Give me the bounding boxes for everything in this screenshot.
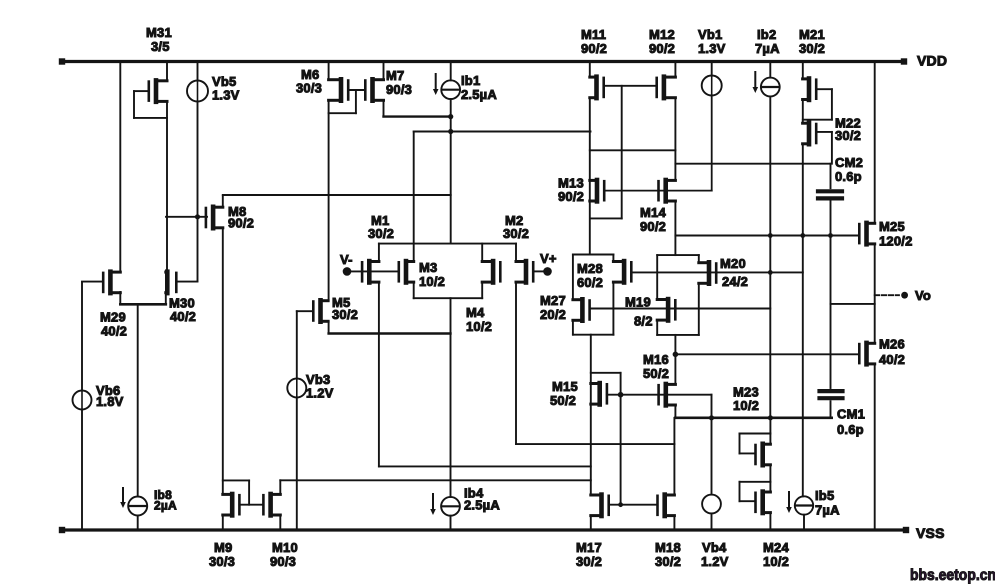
svg-text:0.6p: 0.6p [835, 169, 862, 184]
svg-text:1.2V: 1.2V [306, 386, 334, 401]
svg-text:Ib5: Ib5 [815, 488, 834, 503]
svg-text:M21: M21 [799, 27, 825, 42]
svg-text:M25: M25 [879, 219, 905, 234]
svg-text:1.8V: 1.8V [96, 394, 124, 409]
svg-text:M16: M16 [643, 352, 669, 367]
svg-text:30/2: 30/2 [332, 307, 358, 322]
svg-text:V-: V- [340, 252, 353, 267]
svg-text:20/2: 20/2 [540, 307, 566, 322]
svg-text:1.3V: 1.3V [698, 41, 726, 56]
svg-text:M9: M9 [214, 540, 232, 555]
svg-text:10/2: 10/2 [466, 319, 492, 334]
svg-text:M26: M26 [879, 337, 905, 352]
svg-text:Ib2: Ib2 [757, 27, 776, 42]
svg-text:90/3: 90/3 [270, 554, 296, 569]
svg-text:50/2: 50/2 [643, 366, 669, 381]
svg-text:CM2: CM2 [835, 155, 863, 170]
svg-text:M15: M15 [552, 379, 578, 394]
svg-text:90/3: 90/3 [386, 82, 412, 97]
svg-text:M28: M28 [577, 261, 603, 276]
svg-text:Ib1: Ib1 [461, 73, 480, 88]
svg-text:40/2: 40/2 [879, 352, 905, 367]
svg-text:M18: M18 [655, 540, 681, 555]
svg-text:CM1: CM1 [837, 407, 865, 422]
svg-text:2.5µA: 2.5µA [461, 87, 497, 102]
svg-text:90/2: 90/2 [581, 41, 607, 56]
svg-text:3/5: 3/5 [151, 39, 170, 54]
svg-text:M10: M10 [272, 540, 298, 555]
svg-text:30/2: 30/2 [835, 128, 861, 143]
svg-text:M20: M20 [720, 256, 746, 271]
svg-text:M12: M12 [649, 27, 675, 42]
svg-text:M29: M29 [100, 310, 126, 325]
svg-text:8/2: 8/2 [634, 314, 653, 329]
svg-text:90/2: 90/2 [640, 219, 666, 234]
svg-text:M24: M24 [763, 540, 789, 555]
svg-text:0.6p: 0.6p [837, 422, 864, 437]
svg-text:M17: M17 [576, 540, 602, 555]
svg-text:M19: M19 [625, 295, 651, 310]
svg-text:M7: M7 [386, 68, 404, 83]
svg-text:50/2: 50/2 [550, 393, 576, 408]
svg-text:90/2: 90/2 [649, 41, 675, 56]
svg-text:30/2: 30/2 [503, 226, 529, 241]
svg-text:VSS: VSS [916, 525, 945, 541]
svg-text:2.5µA: 2.5µA [464, 498, 500, 513]
svg-text:7µA: 7µA [815, 503, 840, 518]
svg-text:10/2: 10/2 [763, 554, 789, 569]
svg-text:1.2V: 1.2V [701, 554, 729, 569]
svg-text:M4: M4 [466, 305, 485, 320]
svg-text:M31: M31 [146, 25, 172, 40]
svg-text:40/2: 40/2 [101, 324, 127, 339]
svg-text:30/3: 30/3 [296, 81, 322, 96]
svg-text:M14: M14 [640, 205, 666, 220]
svg-text:Vb1: Vb1 [698, 27, 722, 42]
svg-text:M11: M11 [581, 27, 606, 42]
svg-text:90/2: 90/2 [228, 216, 254, 231]
svg-text:2µA: 2µA [154, 499, 177, 513]
svg-text:bbs.eetop.cn: bbs.eetop.cn [910, 567, 995, 584]
svg-text:V+: V+ [540, 251, 557, 266]
svg-text:M27: M27 [540, 293, 566, 308]
svg-text:30/2: 30/2 [368, 226, 394, 241]
svg-text:Vo: Vo [915, 288, 931, 303]
svg-text:120/2: 120/2 [879, 234, 913, 249]
svg-text:24/2: 24/2 [722, 274, 748, 289]
svg-text:30/2: 30/2 [655, 554, 681, 569]
svg-text:Vb4: Vb4 [702, 540, 727, 555]
svg-text:30/2: 30/2 [799, 41, 825, 56]
svg-text:10/2: 10/2 [733, 398, 759, 413]
svg-text:VDD: VDD [917, 53, 947, 69]
svg-text:1.3V: 1.3V [212, 88, 240, 103]
svg-text:M3: M3 [419, 260, 437, 275]
svg-text:60/2: 60/2 [577, 275, 603, 290]
svg-text:40/2: 40/2 [170, 309, 196, 324]
svg-text:7µA: 7µA [755, 41, 780, 56]
svg-text:10/2: 10/2 [419, 274, 445, 289]
svg-text:30/2: 30/2 [576, 554, 602, 569]
svg-text:30/3: 30/3 [209, 554, 235, 569]
svg-text:90/2: 90/2 [558, 189, 584, 204]
